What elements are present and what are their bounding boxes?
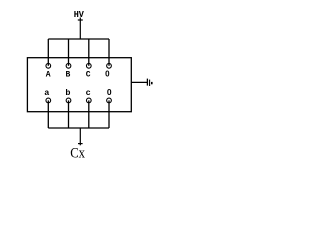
wire HV arrow (up) — [78, 18, 83, 40]
wire Cx arrow (down) — [78, 128, 83, 145]
svg-text:Cx: Cx — [70, 145, 85, 159]
wire drop to terminal B — [68, 39, 70, 66]
terminal 0 lower — [107, 98, 112, 103]
svg-text:b: b — [65, 88, 70, 98]
wire from terminal a down — [47, 100, 49, 128]
svg-text:HV: HV — [74, 10, 85, 20]
svg-text:C: C — [86, 71, 91, 80]
wire drop to terminal C — [88, 39, 90, 66]
svg-text:0: 0 — [107, 87, 112, 97]
terminal b — [66, 98, 71, 103]
terminal A — [46, 63, 51, 68]
terminal C — [86, 63, 91, 68]
wire drop to terminal 0 — [108, 39, 110, 66]
wire from terminal 0 down — [108, 100, 110, 128]
wire top bus — [48, 38, 109, 40]
svg-text:c: c — [86, 88, 91, 98]
wire drop to terminal A — [47, 39, 49, 66]
wire guard to ground — [131, 81, 147, 83]
wire from terminal c down — [88, 100, 90, 128]
svg-text:a: a — [44, 88, 49, 98]
terminal 0 — [107, 63, 112, 68]
wire from terminal b down — [68, 100, 70, 128]
wire bottom bus — [48, 127, 109, 129]
ground — [147, 79, 151, 86]
box screen enclosure — [27, 58, 131, 112]
terminal c — [86, 98, 91, 103]
svg-text:0: 0 — [105, 70, 110, 79]
terminal B — [66, 63, 71, 68]
terminal a — [46, 98, 51, 103]
svg-text:A: A — [46, 71, 51, 80]
svg-text:B: B — [65, 71, 70, 80]
